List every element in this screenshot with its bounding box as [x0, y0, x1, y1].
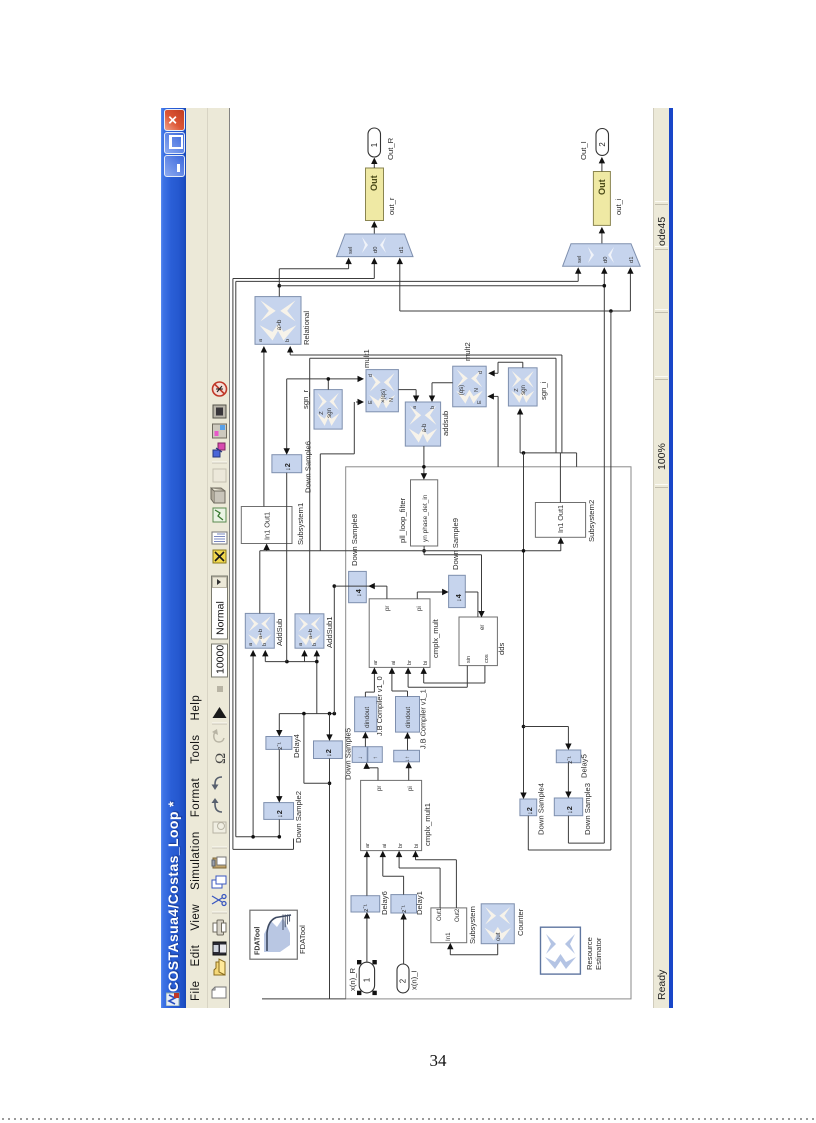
maximize button — [164, 132, 185, 154]
svg-text:ar: ar — [373, 660, 379, 665]
wire stub x=293.5 — [293, 839, 295, 850]
svg-text:d0: d0 — [373, 246, 379, 253]
toolbar icon: cut — [212, 895, 226, 906]
toolbar separator — [212, 847, 227, 849]
block gateway A — [352, 747, 367, 763]
wire In1Out1 to Relational a — [263, 348, 265, 507]
wire Subsystem2 out riser — [559, 453, 561, 503]
block Delay4 — [266, 737, 292, 750]
wire AddSub a feed — [252, 652, 254, 837]
svg-text:zˉ¹: zˉ¹ — [363, 904, 370, 911]
wire y=452.9 rail — [520, 452, 577, 454]
svg-text:d1: d1 — [629, 256, 635, 263]
block mult1 — [366, 370, 398, 412]
wire dindout1 to cmplx_mult ar — [364, 692, 366, 697]
block Subsystem — [431, 908, 467, 943]
svg-text:d: d — [478, 371, 484, 374]
svg-text:(qs): (qs) — [458, 385, 465, 396]
toolbar icon: model explorer doc — [212, 532, 227, 544]
svg-text:bi: bi — [414, 844, 420, 848]
wire mux2 d1 feed — [629, 269, 631, 311]
block Down Sample5 — [314, 741, 343, 759]
toolbar icon: refresh (disabled) — [214, 731, 224, 742]
wire rail y=713.6 — [279, 713, 334, 715]
status bar solver ode45 — [656, 217, 668, 246]
svg-text:Counter: Counter — [516, 908, 525, 936]
wire Down Sample2 out — [278, 819, 280, 836]
wire AddSub1 out bus — [309, 358, 311, 614]
svg-text:In1 Out1: In1 Out1 — [556, 505, 565, 533]
svg-text:1: 1 — [362, 977, 371, 982]
wire to Relational b (y=355 bus) — [289, 348, 291, 355]
block mult2 — [453, 366, 487, 407]
block dindout1 (J.B Compiler v1_0) — [355, 697, 377, 732]
annotation box bottom extension — [262, 998, 346, 1000]
svg-text:Delay6: Delay6 — [380, 891, 389, 915]
junction Down Sample5 feed — [328, 712, 332, 716]
wire Subsystem Out2 to cmplx_mult1 bi — [455, 860, 457, 908]
wire Delay1 to cmplx_mult1 ai — [403, 876, 405, 894]
svg-text:a-b: a-b — [421, 423, 428, 432]
svg-text:b: b — [285, 339, 291, 342]
svg-text:bi: bi — [423, 661, 429, 665]
wire cmplx_mult1 pr to gateway — [377, 768, 379, 781]
wire to Delay5 — [524, 726, 569, 728]
wire cmplx_mult pr to Down Sample8 — [386, 586, 388, 599]
wire rail y=836.8 — [236, 836, 279, 838]
svg-text:yn phase_det_in: yn phase_det_in — [422, 494, 429, 542]
block AddSub1 — [295, 614, 324, 648]
toolbar icon: blocks blue/magenta — [213, 450, 220, 457]
wire x=334.3 riser to pr net — [333, 586, 335, 714]
title bar icon — [166, 992, 180, 1006]
menu bar — [186, 108, 208, 1008]
toolbar icon: open model — [214, 962, 225, 975]
svg-text:↓↑: ↓↑ — [404, 756, 411, 762]
wire gateway C to dindout2 — [407, 734, 409, 750]
toolbar icon: redo — [215, 802, 222, 812]
svg-text:Delay1: Delay1 — [415, 891, 424, 915]
block AddSub — [245, 613, 274, 648]
toolbar icon: copy — [212, 880, 222, 888]
svg-text:zˉ¹: zˉ¹ — [401, 905, 408, 912]
svg-text:sgn_r: sgn_r — [301, 389, 310, 409]
toolbar field: simulation stop time 10000 — [212, 644, 228, 677]
status bar — [653, 108, 670, 1008]
title bar — [161, 108, 186, 1008]
wire Subsystem Out1 to cmplx_mult1 br — [439, 868, 441, 908]
svg-text:pi: pi — [416, 606, 423, 611]
wire sgn_r out to mult1 d and Down Sample6 — [327, 379, 329, 390]
svg-text:Down Sample8: Down Sample8 — [350, 514, 359, 566]
wire rail y=661.6 AddSub b / AddSub1 a — [265, 661, 317, 663]
wire mult2 out to addsub b — [432, 382, 453, 384]
wire Down Sample9 out to dds — [465, 591, 478, 593]
svg-text:dds: dds — [497, 642, 506, 655]
svg-text:d0: d0 — [603, 256, 609, 263]
toolbar — [208, 108, 229, 1008]
svg-text:Down Sample5: Down Sample5 — [344, 728, 353, 780]
svg-text:↓4: ↓4 — [454, 593, 463, 602]
wire In1Out1 input — [266, 546, 268, 551]
wire out_r to Out_R — [373, 160, 375, 169]
svg-text:↓2: ↓2 — [324, 749, 333, 757]
wire cmplx_mult1 pi to gateway C — [408, 764, 410, 781]
svg-text:N: N — [474, 388, 480, 392]
svg-text:x(n)_R: x(n)_R — [348, 968, 357, 991]
toolbar separator — [212, 462, 227, 464]
toolbar icon: undo — [215, 777, 222, 786]
wire dindout2 to cmplx_mult ai — [407, 691, 409, 697]
svg-text:2: 2 — [598, 142, 607, 146]
toolbar icon: stop (disabled small) — [217, 686, 223, 692]
toolbar icon: print — [217, 920, 224, 935]
svg-text:In1 Out1: In1 Out1 — [263, 512, 272, 540]
wire mult1 out to addsub a — [398, 389, 416, 391]
block Subsystem2 (In1 Out1) — [535, 503, 585, 538]
svg-text:Subsystem1: Subsystem1 — [296, 503, 305, 545]
block dindout2 (J.B Compiler v1_1) — [396, 697, 420, 733]
footer dotted line — [2, 1118, 814, 1120]
block Delay5 — [556, 750, 581, 763]
status bar text Ready — [656, 970, 668, 1000]
svg-text:Out_I: Out_I — [579, 141, 588, 160]
svg-text:b: b — [262, 643, 268, 646]
svg-text:↓2: ↓2 — [283, 463, 292, 471]
close button — [164, 109, 185, 131]
svg-text:Out: Out — [597, 179, 607, 195]
annotation box (lower group) — [346, 467, 631, 999]
svg-text:Resource: Resource — [585, 937, 594, 970]
svg-text:b: b — [312, 643, 318, 646]
toolbar icon: 3d gray — [214, 491, 225, 503]
canvas background — [229, 108, 654, 1008]
svg-text:a>b: a>b — [276, 319, 283, 330]
svg-text:Down Sample4: Down Sample4 — [537, 782, 546, 835]
svg-text:Down Sample2: Down Sample2 — [294, 791, 303, 843]
wire mult1 E feed — [356, 401, 362, 403]
svg-text:Subsystem: Subsystem — [468, 906, 477, 944]
svg-text:2: 2 — [399, 979, 408, 983]
svg-text:Down Sample6: Down Sample6 — [304, 441, 313, 493]
svg-text:x(n)_I: x(n)_I — [410, 970, 419, 990]
page number — [408, 1051, 468, 1071]
wire bottom rail y=849.4 — [233, 848, 294, 850]
toolbar separator — [212, 912, 227, 914]
wire mux1 d1 feed — [399, 260, 401, 312]
toolbar icon: save — [213, 942, 226, 955]
wire Delay4 to Down Sample2 — [278, 749, 280, 800]
toolbar icon: paste — [213, 858, 226, 868]
svg-text:Out1: Out1 — [436, 907, 443, 921]
block Delay1 — [391, 895, 417, 913]
wire into Subsystem2 — [560, 539, 562, 551]
svg-text:↓2: ↓2 — [565, 806, 574, 814]
Simulink window (rotated 90 deg CCW on the page) — [161, 108, 672, 1008]
svg-text:ar: ar — [365, 843, 371, 848]
wire x(n)_R to Delay6 — [366, 914, 368, 962]
svg-text:br: br — [398, 843, 404, 848]
wire gateway A to dindout1 — [364, 734, 366, 747]
output port Out_R — [368, 128, 381, 157]
wire out_i to Out_I — [601, 159, 603, 172]
wire dds cos to cmplx_mult bi — [484, 666, 486, 683]
wire addsub out to pll_loop_filter — [423, 446, 425, 478]
svg-text:J.B Compiler v1_1: J.B Compiler v1_1 — [419, 689, 428, 749]
block Down Sample6 — [272, 455, 302, 473]
svg-text:cmplx_mult: cmplx_mult — [431, 618, 440, 658]
wire stub x=576.6 — [576, 453, 578, 467]
window bottom border — [669, 108, 673, 1008]
svg-text:FDATool: FDATool — [298, 925, 307, 954]
wire AddSub out riser — [259, 551, 261, 614]
status bar zoom 100% — [656, 443, 668, 470]
svg-text:↓2: ↓2 — [525, 807, 534, 815]
svg-text:Estimator: Estimator — [594, 937, 603, 970]
svg-text:b: b — [430, 406, 436, 409]
input port x(n)_I — [397, 964, 409, 993]
block FDATool — [250, 910, 297, 959]
wire long left riser x=232.9 — [232, 279, 234, 850]
wire mux2 d0 feed / Down Sample3 riser x=604.3 — [603, 269, 605, 843]
toolbar icon: debug disabled (red slash) — [213, 382, 227, 396]
block sgn_r — [314, 390, 342, 430]
svg-text:br: br — [407, 660, 413, 665]
toolbar icon: disabled pale — [213, 469, 226, 482]
toolbar icon: new model — [212, 987, 226, 998]
svg-text:↑: ↑ — [372, 756, 379, 759]
svg-text:Out_R: Out_R — [386, 137, 395, 160]
mux2 multiport switch — [563, 244, 641, 267]
wire mux1 to out_r — [373, 223, 375, 235]
wire long drop x=523.5 to Down Sample4 — [523, 453, 525, 797]
block cmplx_mult — [369, 599, 430, 668]
svg-text:zˉ¹: zˉ¹ — [277, 742, 284, 749]
wire AddSub1 b feed — [316, 652, 318, 714]
toolbar icon: start simulation (play) — [213, 707, 227, 718]
wire bus y=278.5 — [233, 278, 374, 280]
wire long bus y=550.8 — [260, 550, 561, 552]
minimize button — [164, 155, 185, 177]
svg-text:ai: ai — [382, 844, 388, 848]
wire mux2 to out_i — [601, 229, 603, 244]
wire Down Sample4 out riser x=610.9 — [610, 311, 612, 850]
svg-text:AddSub: AddSub — [275, 619, 284, 646]
wire mux1 d0 feed — [373, 260, 375, 279]
block sgn_i — [508, 368, 537, 406]
svg-text:dindout: dindout — [364, 707, 371, 728]
svg-text:E: E — [368, 400, 374, 404]
svg-text:sgn: sgn — [520, 385, 527, 395]
junction Relational-out / d0 line — [278, 284, 282, 288]
svg-text:sgn: sgn — [326, 408, 333, 418]
title text — [165, 801, 181, 992]
svg-text:addsub: addsub — [441, 411, 450, 436]
block Down Sample9 — [449, 575, 466, 607]
block out_i (Out register) — [593, 172, 610, 226]
svg-text:FDATool: FDATool — [255, 927, 262, 955]
svg-text:zˉ¹: zˉ¹ — [567, 756, 574, 763]
wire Down Sample3 out — [567, 816, 569, 843]
toolbar icon: camera gray — [213, 405, 226, 418]
svg-text:out_i: out_i — [614, 198, 623, 215]
svg-text:↓: ↓ — [357, 756, 364, 759]
input port x(n)_R — [359, 962, 374, 993]
block cmplx_mult1 — [361, 780, 422, 850]
svg-text:sgn_i: sgn_i — [539, 381, 548, 400]
svg-text:1: 1 — [370, 142, 379, 147]
wire sgn_i out to mult2 d — [522, 362, 524, 368]
junction d1 riser — [609, 309, 613, 313]
wire Relational out to mux1 sel — [278, 269, 280, 297]
block dds — [459, 617, 497, 666]
svg-text:sel: sel — [348, 247, 354, 254]
svg-text:ai: ai — [391, 661, 397, 665]
wire Delay5 to Down Sample3 — [567, 763, 569, 796]
block gateway B — [368, 747, 383, 763]
output port Out_I — [596, 129, 609, 156]
svg-text:J.B Compiler v1_0: J.B Compiler v1_0 — [375, 676, 384, 736]
wire left riser x=235.8 — [235, 281, 237, 836]
svg-text:In1: In1 — [445, 932, 452, 941]
block gateway C — [394, 750, 420, 762]
block out_r (Out register) — [366, 168, 384, 221]
svg-text:Out: Out — [369, 175, 379, 191]
svg-text:pll_loop_filter: pll_loop_filter — [398, 497, 407, 543]
svg-text:Z: Z — [319, 411, 325, 415]
svg-text:Relational: Relational — [302, 311, 311, 345]
svg-text:a+b: a+b — [258, 629, 264, 639]
block Down Sample8 — [349, 571, 367, 602]
toolbar dropdown: Normal — [212, 576, 228, 639]
svg-text:↓2: ↓2 — [275, 810, 284, 818]
mux1 multiport switch — [337, 234, 414, 257]
svg-text:↓4: ↓4 — [354, 588, 363, 597]
svg-text:Out2: Out2 — [454, 908, 461, 922]
svg-text:Delay5: Delay5 — [580, 754, 589, 778]
svg-text:Down Sample9: Down Sample9 — [451, 518, 460, 570]
svg-text:Subsystem2: Subsystem2 — [587, 500, 596, 542]
svg-text:pi: pi — [407, 786, 414, 791]
svg-text:pr: pr — [384, 606, 391, 611]
wire Down Sample5 out — [329, 759, 331, 999]
block Subsystem1 (In1 Out1) — [241, 507, 292, 544]
svg-text:cmplx_mult1: cmplx_mult1 — [423, 803, 432, 846]
wire bus y=311 — [400, 310, 631, 312]
block Down Sample4 — [520, 799, 537, 816]
wire mux2 sel feed — [577, 269, 579, 281]
toolbar icon: build (yellow) — [213, 550, 226, 563]
svg-text:dindout: dindout — [405, 707, 412, 728]
svg-text:pr: pr — [376, 786, 383, 791]
block Down Sample2 — [264, 803, 294, 820]
svg-text:sin: sin — [466, 656, 472, 663]
block Relational — [255, 297, 301, 345]
wire cmplx_mult pi to Down Sample9 — [416, 592, 418, 599]
svg-text:er: er — [479, 625, 486, 630]
svg-text:d: d — [368, 374, 374, 377]
svg-text:Down Sample3: Down Sample3 — [583, 783, 592, 835]
svg-text:d1: d1 — [399, 246, 405, 253]
toolbar icon: print preview (disabled) — [213, 822, 226, 833]
wire dds sin to cmplx_mult br — [466, 666, 468, 688]
svg-text:Delay4: Delay4 — [292, 733, 301, 758]
block Counter — [481, 904, 514, 944]
svg-text:E: E — [477, 400, 483, 404]
wire mult2 E input feed — [489, 395, 498, 397]
toolbar icon: model browser — [213, 424, 227, 438]
toolbar icon: green chart — [213, 508, 226, 522]
wire x(n)_I to Delay1 — [403, 915, 405, 964]
svg-text:out_r: out_r — [387, 197, 396, 215]
block Resource Estimator — [541, 927, 581, 974]
svg-text:cos: cos — [484, 654, 490, 663]
svg-text:sel: sel — [577, 256, 583, 263]
svg-text:N: N — [389, 398, 395, 402]
svg-text:Z: Z — [514, 388, 520, 392]
block pll_loop_filter — [411, 480, 438, 546]
wire long bus y=285.7 to mux2 d0 — [279, 285, 604, 287]
svg-text:×(qs): ×(qs) — [380, 389, 387, 403]
block addsub — [405, 402, 440, 446]
svg-text:out: out — [495, 932, 502, 941]
toolbar separator — [212, 723, 227, 725]
wire bus y=281.4 — [236, 280, 578, 282]
wire Delay6 to cmplx_mult1 ar — [366, 853, 368, 896]
wire pll_loop_filter out to dds er — [423, 546, 425, 555]
wire sgn_i input — [519, 410, 521, 453]
svg-text:AddSub1: AddSub1 — [325, 616, 334, 648]
wire Counter to Subsystem In1 — [497, 944, 499, 955]
block Delay6 — [351, 896, 380, 912]
block Down Sample3 — [554, 798, 582, 816]
svg-text:a+b: a+b — [308, 629, 314, 639]
wire Down Sample6 out drop — [286, 473, 288, 662]
junction d0 riser — [603, 284, 607, 288]
